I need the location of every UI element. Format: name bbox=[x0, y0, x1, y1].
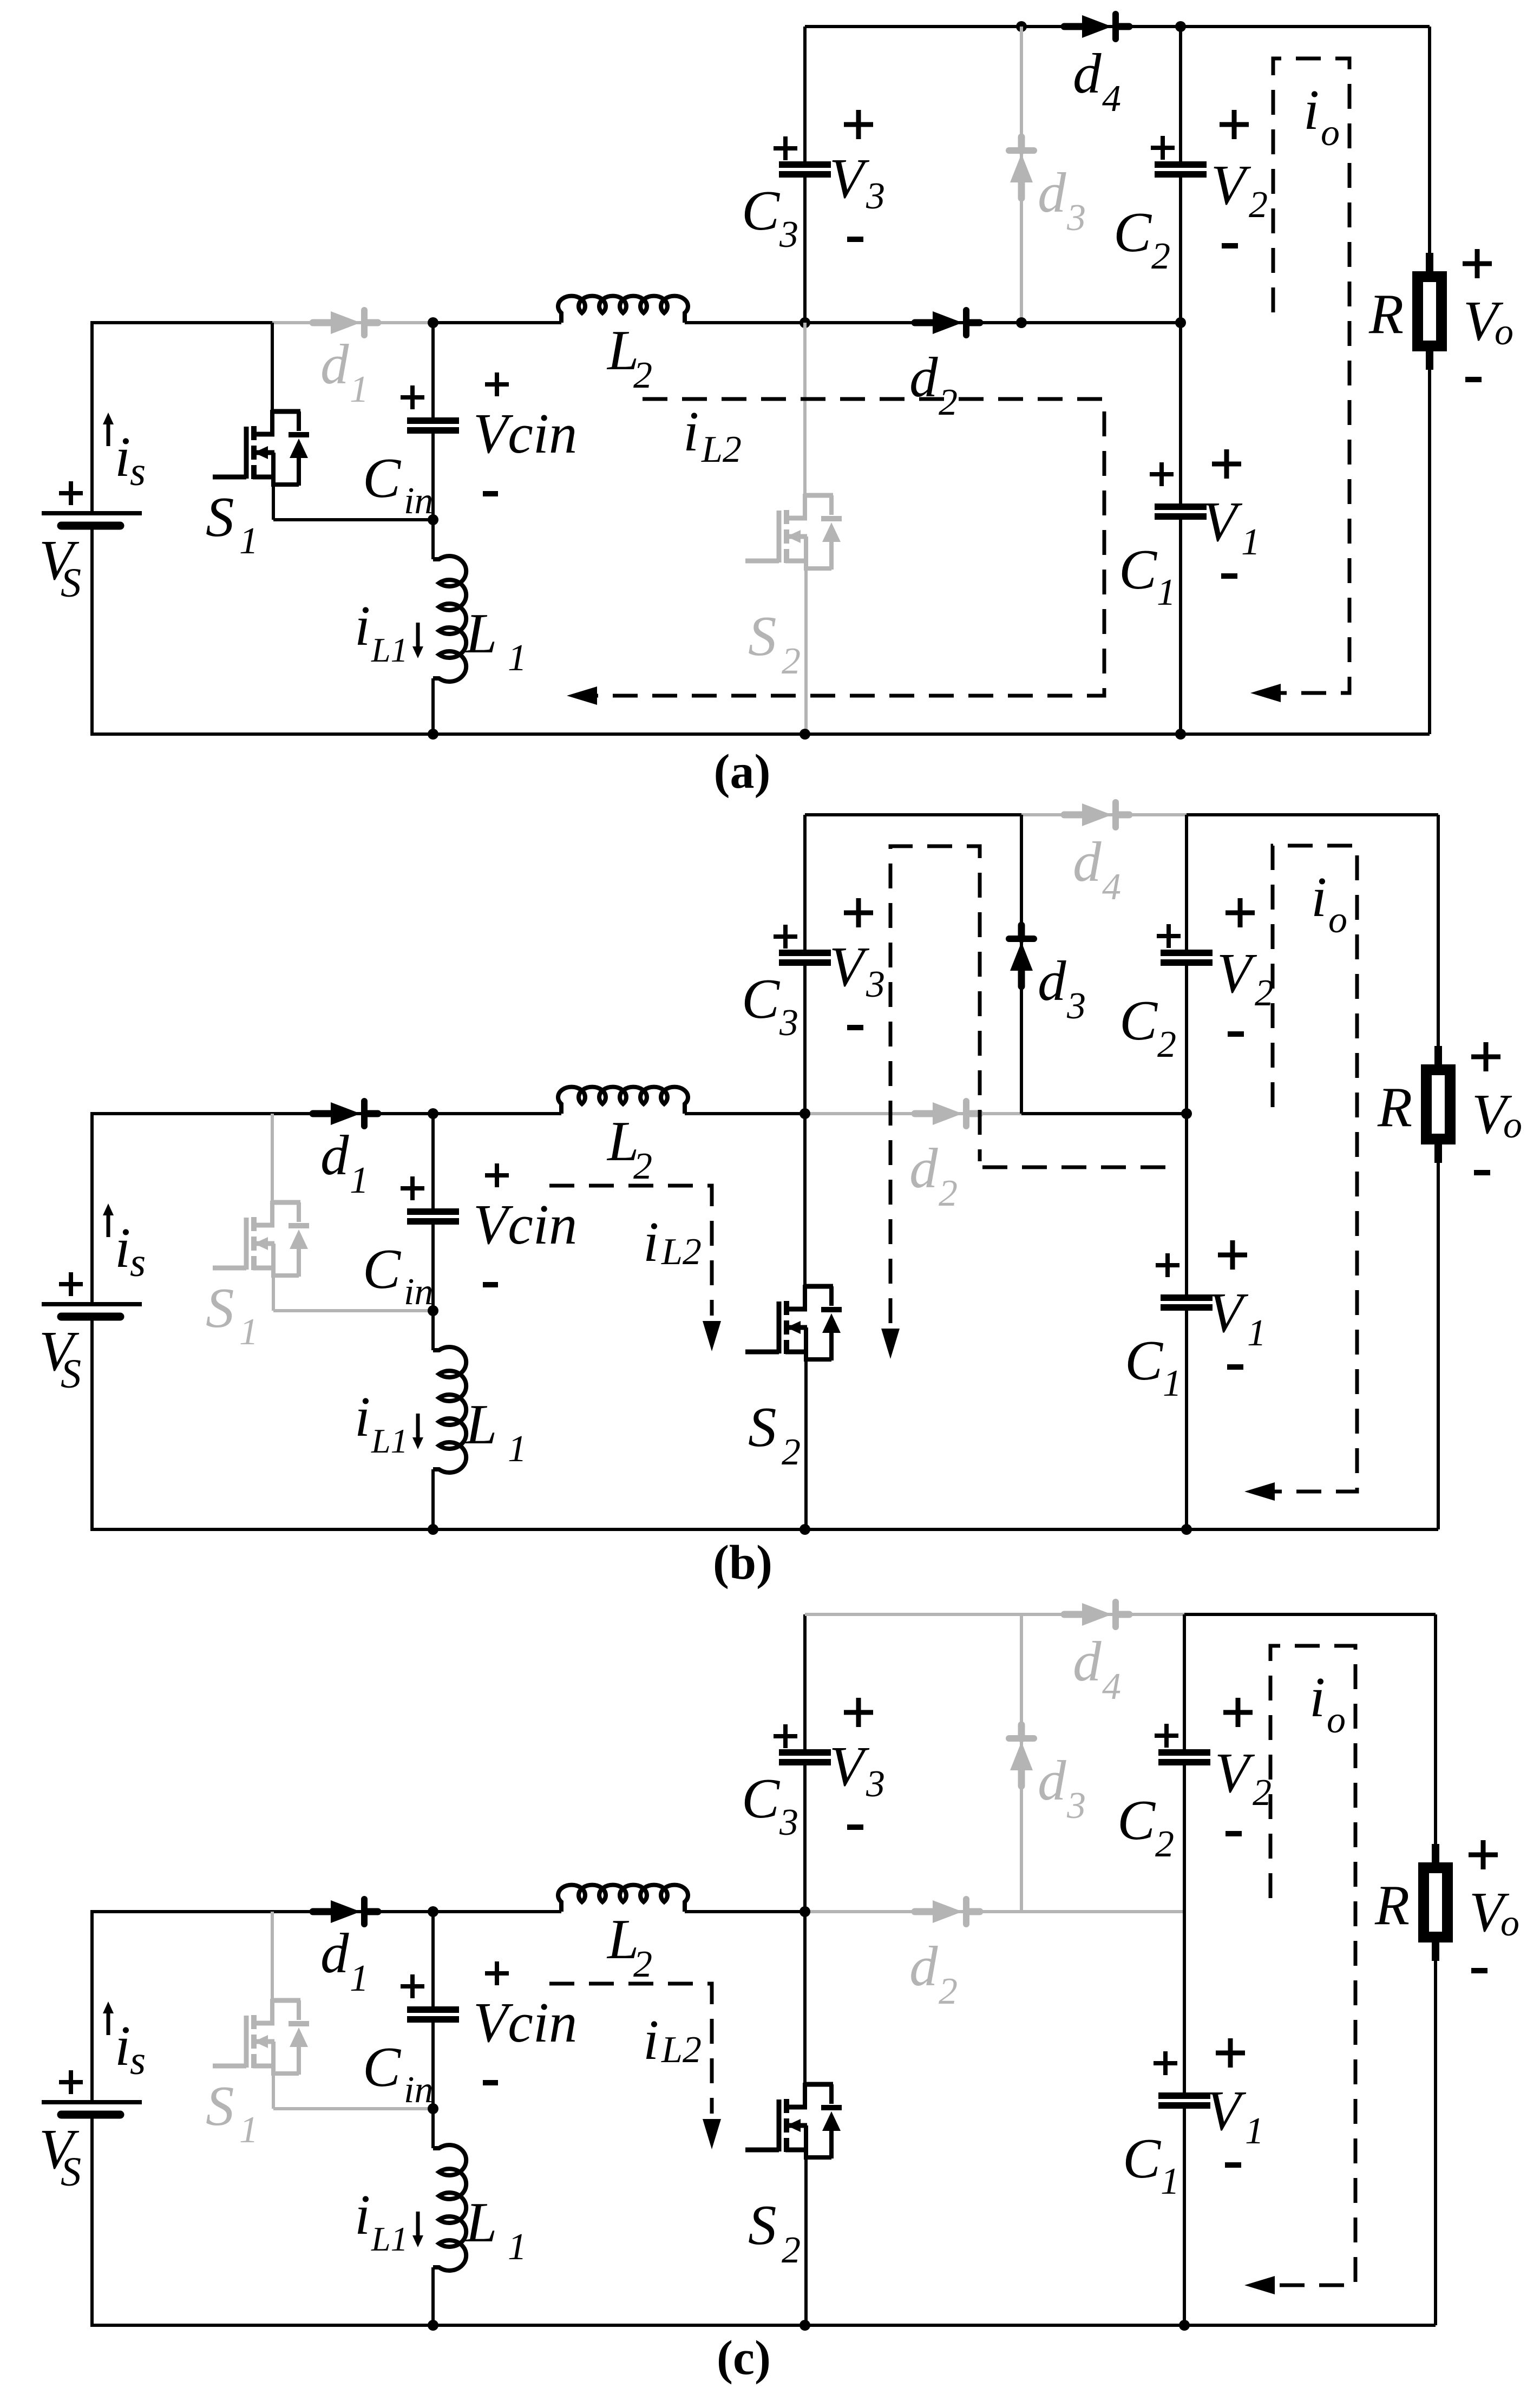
svg-text:d: d bbox=[320, 332, 349, 396]
svg-text:o: o bbox=[1328, 899, 1347, 941]
svg-text:3: 3 bbox=[866, 175, 885, 217]
svg-text:C: C bbox=[1125, 1329, 1164, 1392]
svg-text:3: 3 bbox=[1066, 197, 1086, 239]
svg-text:3: 3 bbox=[779, 1802, 798, 1843]
svg-text:3: 3 bbox=[1066, 985, 1086, 1027]
svg-text:3: 3 bbox=[779, 214, 798, 256]
svg-text:S: S bbox=[748, 2193, 777, 2256]
svg-text:1: 1 bbox=[239, 2109, 258, 2151]
svg-text:2: 2 bbox=[939, 1173, 958, 1214]
svg-text:(b): (b) bbox=[713, 1536, 772, 1590]
svg-text:V: V bbox=[1211, 153, 1251, 217]
svg-text:2: 2 bbox=[633, 1944, 652, 1985]
svg-text:V: V bbox=[829, 147, 870, 210]
svg-text:C: C bbox=[363, 1237, 402, 1300]
svg-text:1: 1 bbox=[1245, 2110, 1264, 2152]
svg-text:o: o bbox=[1495, 311, 1513, 353]
svg-text:d: d bbox=[1073, 830, 1102, 893]
svg-text:2: 2 bbox=[633, 355, 652, 396]
svg-text:(c): (c) bbox=[717, 2331, 771, 2385]
svg-text:in: in bbox=[404, 480, 433, 522]
svg-text:Vcin: Vcin bbox=[473, 402, 577, 465]
svg-text:s: s bbox=[130, 1240, 146, 1285]
svg-text:i: i bbox=[643, 2008, 659, 2071]
svg-text:C: C bbox=[1123, 2127, 1162, 2190]
svg-text:d: d bbox=[1038, 1749, 1066, 1812]
svg-text:C: C bbox=[1119, 989, 1158, 1052]
svg-text:L1: L1 bbox=[371, 631, 408, 669]
svg-text:C: C bbox=[363, 446, 402, 509]
svg-text:V: V bbox=[829, 935, 870, 998]
svg-text:S: S bbox=[61, 560, 81, 606]
svg-text:S: S bbox=[206, 485, 234, 548]
svg-text:i: i bbox=[1311, 865, 1327, 928]
svg-text:C: C bbox=[1113, 200, 1152, 264]
svg-text:V: V bbox=[1217, 941, 1257, 1005]
svg-text:S: S bbox=[206, 1276, 234, 1339]
svg-text:s: s bbox=[130, 2038, 146, 2083]
svg-text:2: 2 bbox=[1249, 184, 1268, 226]
svg-text:2: 2 bbox=[782, 2229, 801, 2271]
svg-text:C: C bbox=[742, 1767, 781, 1830]
svg-text:4: 4 bbox=[1102, 1666, 1121, 1708]
svg-text:o: o bbox=[1500, 1902, 1519, 1944]
svg-text:d: d bbox=[1073, 42, 1102, 105]
svg-text:in: in bbox=[404, 2069, 433, 2111]
svg-text:2: 2 bbox=[1157, 1024, 1176, 1065]
svg-text:d: d bbox=[1038, 949, 1066, 1012]
svg-text:2: 2 bbox=[782, 1431, 801, 1473]
svg-text:(a): (a) bbox=[714, 745, 771, 799]
svg-text:1: 1 bbox=[1163, 1363, 1182, 1404]
svg-text:2: 2 bbox=[782, 640, 801, 682]
svg-text:L1: L1 bbox=[371, 1422, 408, 1460]
svg-text:1: 1 bbox=[1161, 2161, 1179, 2202]
svg-text:i: i bbox=[355, 1385, 370, 1448]
svg-text:d: d bbox=[909, 345, 938, 409]
svg-text:S: S bbox=[748, 1395, 777, 1458]
svg-text:i: i bbox=[683, 400, 699, 463]
svg-text:o: o bbox=[1503, 1104, 1522, 1146]
svg-text:Vcin: Vcin bbox=[473, 1193, 577, 1256]
svg-text:C: C bbox=[742, 967, 781, 1030]
svg-text:1: 1 bbox=[508, 2226, 527, 2268]
svg-text:L: L bbox=[464, 2190, 497, 2254]
svg-text:V: V bbox=[829, 1735, 870, 1798]
svg-text:V: V bbox=[1206, 2079, 1247, 2142]
svg-text:3: 3 bbox=[779, 1002, 798, 1044]
svg-text:V: V bbox=[1202, 490, 1243, 553]
svg-text:1: 1 bbox=[350, 369, 369, 410]
svg-text:d: d bbox=[320, 1123, 349, 1187]
svg-text:C: C bbox=[742, 179, 781, 242]
svg-text:i: i bbox=[1309, 1665, 1325, 1729]
svg-text:o: o bbox=[1321, 112, 1340, 154]
svg-text:R: R bbox=[1377, 1075, 1412, 1139]
svg-text:Vcin: Vcin bbox=[473, 1991, 577, 2054]
svg-text:L2: L2 bbox=[701, 429, 742, 470]
svg-text:1: 1 bbox=[239, 520, 258, 562]
svg-text:L: L bbox=[464, 601, 497, 665]
svg-text:4: 4 bbox=[1102, 78, 1121, 120]
svg-text:V: V bbox=[1215, 1741, 1255, 1804]
svg-text:S: S bbox=[61, 2149, 81, 2195]
svg-text:1: 1 bbox=[239, 1311, 258, 1353]
svg-text:C: C bbox=[363, 2035, 402, 2098]
svg-text:d: d bbox=[320, 1921, 349, 1985]
svg-text:d: d bbox=[909, 1136, 938, 1200]
svg-text:1: 1 bbox=[1241, 521, 1260, 563]
svg-text:R: R bbox=[1374, 1873, 1410, 1937]
svg-text:i: i bbox=[1303, 78, 1319, 141]
svg-text:1: 1 bbox=[350, 1958, 369, 1999]
svg-text:2: 2 bbox=[1255, 972, 1274, 1014]
svg-text:1: 1 bbox=[1247, 1312, 1266, 1354]
svg-text:i: i bbox=[355, 2183, 370, 2246]
svg-text:in: in bbox=[404, 1271, 433, 1313]
svg-text:S: S bbox=[61, 1351, 81, 1397]
svg-text:2: 2 bbox=[633, 1146, 652, 1187]
svg-text:4: 4 bbox=[1102, 866, 1121, 908]
svg-text:V: V bbox=[1208, 1281, 1249, 1344]
svg-text:2: 2 bbox=[1155, 1823, 1174, 1865]
svg-text:L2: L2 bbox=[661, 2029, 702, 2071]
svg-text:s: s bbox=[130, 449, 146, 494]
svg-text:i: i bbox=[643, 1210, 659, 1273]
svg-text:L1: L1 bbox=[371, 2220, 408, 2258]
svg-text:1: 1 bbox=[508, 1428, 527, 1470]
svg-text:i: i bbox=[115, 425, 130, 488]
svg-text:d: d bbox=[1038, 161, 1066, 224]
svg-text:1: 1 bbox=[508, 637, 527, 679]
svg-text:2: 2 bbox=[1151, 236, 1170, 277]
svg-text:1: 1 bbox=[1157, 572, 1176, 613]
svg-text:R: R bbox=[1368, 282, 1404, 345]
svg-text:i: i bbox=[115, 1216, 130, 1279]
svg-text:L: L bbox=[464, 1392, 497, 1456]
svg-text:o: o bbox=[1327, 1699, 1346, 1741]
svg-text:3: 3 bbox=[1066, 1785, 1086, 1827]
svg-text:1: 1 bbox=[350, 1160, 369, 1201]
svg-text:S: S bbox=[748, 604, 777, 668]
svg-text:2: 2 bbox=[1253, 1772, 1272, 1814]
svg-text:3: 3 bbox=[866, 1763, 885, 1805]
svg-text:3: 3 bbox=[866, 964, 885, 1005]
svg-text:i: i bbox=[115, 2014, 130, 2077]
svg-text:2: 2 bbox=[939, 382, 958, 423]
svg-text:i: i bbox=[355, 594, 370, 657]
svg-text:2: 2 bbox=[939, 1971, 958, 2012]
svg-text:L2: L2 bbox=[661, 1231, 702, 1273]
svg-text:C: C bbox=[1117, 1788, 1156, 1852]
svg-text:S: S bbox=[206, 2074, 234, 2137]
svg-text:d: d bbox=[1073, 1630, 1102, 1693]
svg-text:d: d bbox=[909, 1934, 938, 1998]
svg-text:C: C bbox=[1119, 538, 1158, 601]
